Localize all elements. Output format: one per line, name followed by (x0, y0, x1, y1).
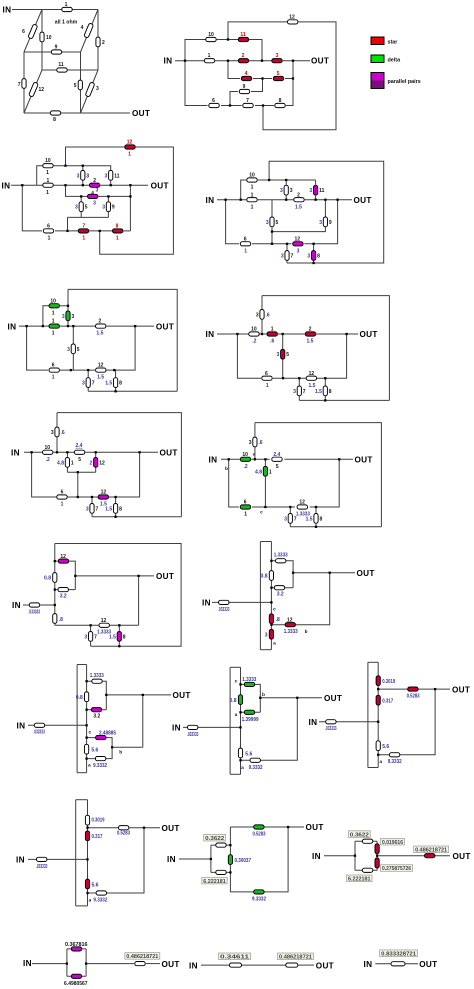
svg-text:3: 3 (51, 430, 54, 436)
wire 6.222181 branch (355, 869, 377, 871)
wire down to R4 (228, 61, 240, 79)
svg-text:2.4: 2.4 (273, 452, 280, 458)
wire R4-R5 (253, 78, 272, 80)
svg-text:12: 12 (98, 363, 104, 369)
resistor R2 (star, 1.5) (305, 332, 315, 336)
svg-text:6.222181: 6.222181 (348, 877, 371, 883)
resistor 9.3332 (250, 758, 260, 762)
svg-text:8: 8 (119, 381, 122, 387)
resistor R3 (delta, 3) (66, 311, 70, 321)
wire R10 to R5 (252, 458, 270, 460)
resistor 6.222181 (216, 870, 226, 874)
svg-text:OUT: OUT (132, 109, 150, 118)
wire R5 vertical (80, 196, 82, 217)
junction nodes c2 (184, 60, 186, 62)
resistor R5 (1 ohm) (78, 80, 82, 90)
resistor R6 (209, 103, 219, 107)
resistor 0.317 (star) (376, 695, 380, 705)
wire R7-R8 (255, 105, 274, 107)
wire bottom line (92, 516, 181, 518)
svg-text:1: 1 (244, 512, 247, 518)
svg-text:.6: .6 (270, 339, 274, 345)
resistor 0.3019 (85, 815, 89, 825)
svg-text:10: 10 (45, 158, 51, 164)
svg-text:12: 12 (60, 554, 66, 560)
svg-text:all 1 ohm: all 1 ohm (55, 20, 78, 26)
svg-text:3: 3 (86, 173, 89, 179)
wire R8 right (123, 230, 131, 232)
wire to OUT (146, 963, 160, 965)
svg-text:2: 2 (242, 53, 245, 59)
wire IN segment (179, 858, 211, 860)
svg-text:0.833328721: 0.833328721 (381, 951, 416, 957)
svg-text:0.275875726: 0.275875726 (382, 866, 411, 872)
svg-text:.033333: .033333 (29, 609, 41, 615)
junction nodes c4 (224, 199, 226, 201)
svg-text:11: 11 (114, 173, 120, 179)
wire R2-OUT (305, 199, 352, 201)
wire bottom line (290, 526, 381, 528)
svg-text:3: 3 (256, 312, 259, 318)
svg-text:3: 3 (309, 188, 312, 194)
svg-text:11: 11 (319, 188, 325, 194)
svg-text:3: 3 (319, 220, 322, 226)
wire R3 vertical (285, 180, 287, 200)
junction nodes c10 (270, 560, 272, 562)
wire OUT line (88, 827, 161, 829)
svg-text:1: 1 (208, 53, 211, 59)
wire bottom line and right vertical (230, 827, 288, 892)
wire top loop and right side (55, 544, 181, 647)
svg-text:.6: .6 (258, 440, 262, 446)
wire R6 line right and up (107, 326, 136, 370)
svg-text:2.48885: 2.48885 (99, 730, 116, 736)
resistor R12 (1.3333) (297, 505, 307, 509)
svg-text:OUT: OUT (452, 685, 470, 694)
resistor R1 (1 ohm) (62, 7, 72, 11)
wire left return edge (75, 800, 77, 906)
svg-text:6: 6 (47, 224, 50, 230)
svg-text:3: 3 (307, 254, 310, 260)
svg-text:OUT: OUT (354, 196, 372, 205)
wire IN segment (24, 451, 42, 453)
junction nodes c8 (228, 458, 230, 460)
resistor 5.6 (238, 748, 242, 758)
resistor 0.3622 (362, 839, 372, 843)
svg-text:IN: IN (312, 852, 321, 861)
wire R9 right leg (251, 79, 263, 92)
resistor R8 (275, 103, 285, 107)
svg-text:9.3332: 9.3332 (388, 759, 402, 765)
svg-text:3: 3 (93, 200, 96, 206)
wire R6-R7 (221, 105, 242, 107)
junction nodes c16 (354, 855, 356, 857)
svg-text:0.34611: 0.34611 (220, 955, 249, 961)
wire 1.39999 branch (241, 711, 261, 713)
resistor R2 (star) (238, 59, 248, 63)
wire R6-R12 (60, 369, 95, 371)
wire edge A-F1 (24, 10, 42, 53)
wire R6 line right and up (304, 200, 337, 244)
svg-text:5.6: 5.6 (245, 751, 252, 757)
svg-text:1: 1 (116, 236, 119, 242)
svg-text:1: 1 (52, 310, 55, 316)
resistor 3 (star) (269, 629, 273, 639)
wire R12 loop return (100, 147, 174, 254)
svg-text:c: c (273, 608, 276, 613)
wire 9.3332 branch (87, 747, 113, 758)
wire 2.48885 branch (87, 738, 113, 748)
resistor 9.3332 (389, 753, 399, 757)
svg-text:5.6: 5.6 (382, 744, 389, 750)
svg-text:2: 2 (99, 319, 102, 325)
resistor R1 (204, 59, 214, 63)
svg-text:a: a (235, 713, 238, 718)
svg-text:OUT: OUT (162, 960, 180, 969)
svg-text:.8: .8 (276, 617, 280, 623)
svg-text:12: 12 (309, 371, 315, 377)
junction nodes c11 (85, 680, 87, 682)
junction nodes c3 (21, 184, 23, 186)
wire R5 right (285, 78, 293, 80)
wire R7 vertical (90, 625, 92, 646)
resistor R11 (parallel pair, 3) (314, 185, 318, 195)
wire R12 branch (66, 147, 125, 166)
svg-text:1: 1 (52, 331, 55, 337)
wire IN line (319, 721, 378, 723)
svg-text:3: 3 (265, 633, 268, 639)
wire up to R10 (241, 180, 247, 200)
wire right loop vertical (142, 695, 144, 747)
svg-text:7: 7 (294, 516, 297, 522)
resistor R2 (1 ohm) (96, 37, 100, 47)
wire R12 branch left (228, 22, 287, 40)
legend star (red) (371, 37, 384, 45)
wire IN line (212, 601, 271, 603)
svg-text:5: 5 (74, 83, 77, 89)
svg-text:10: 10 (249, 173, 255, 179)
wire main to R6 line (27, 326, 48, 370)
resistor .033333 (188, 725, 198, 729)
wire OUT branch (378, 688, 450, 690)
svg-text:8: 8 (279, 98, 282, 104)
svg-text:b: b (305, 629, 308, 635)
wire R5 vertical (271, 200, 273, 244)
wire R3 vertical (254, 423, 256, 460)
svg-text:1: 1 (251, 192, 254, 198)
wire bottom left (185, 61, 208, 106)
wire main to R6 line (226, 200, 239, 244)
wire main to R6 line (237, 334, 261, 378)
resistor R3 (star) (272, 59, 282, 63)
wire OUT line (260, 697, 322, 699)
svg-text:0.486218721: 0.486218721 (279, 955, 312, 961)
boxed value 0.019616 (381, 838, 405, 845)
wire R7-R8 (89, 230, 113, 232)
svg-text:.2: .2 (252, 339, 256, 345)
wire R6 line right and up (317, 334, 347, 378)
resistor 1.3333 (276, 559, 286, 563)
svg-text:1: 1 (271, 327, 274, 333)
svg-text:IN: IN (8, 322, 17, 331)
svg-text:9.3332: 9.3332 (93, 897, 107, 903)
wire R1 vertical (264, 459, 266, 507)
wire 3.2 branch (55, 589, 76, 591)
wire up-branch left (185, 40, 206, 61)
resistor R11 (3) (109, 170, 113, 180)
wire right vertical (129, 185, 131, 231)
resistor 5.6 (star) (85, 879, 89, 889)
svg-text:9.3332: 9.3332 (252, 896, 266, 902)
svg-text:a: a (88, 764, 91, 769)
svg-text:3: 3 (266, 220, 269, 226)
svg-text:1.5: 1.5 (309, 383, 316, 389)
wire 0.3622 branch (211, 844, 231, 846)
svg-text:0.3019: 0.3019 (92, 817, 105, 823)
svg-text:.8: .8 (59, 617, 63, 623)
svg-text:3: 3 (77, 173, 80, 179)
svg-text:a: a (273, 642, 276, 647)
wire R5 vertical (72, 326, 74, 370)
svg-text:2: 2 (102, 40, 105, 46)
svg-text:8: 8 (329, 389, 332, 395)
svg-text:10: 10 (46, 35, 52, 41)
svg-text:8: 8 (320, 516, 323, 522)
wire IN-OUT (375, 963, 418, 965)
resistor R7 (1 ohm) (22, 79, 26, 89)
resistor .033333 (219, 600, 229, 604)
svg-text:1.5: 1.5 (109, 634, 116, 640)
resistor R6 (delta, 1) (240, 505, 250, 509)
resistor R1 (star, .6) (267, 332, 277, 336)
wire to OUT (288, 826, 304, 828)
svg-text:0.5283: 0.5283 (407, 694, 420, 700)
svg-text:1: 1 (266, 383, 269, 389)
wire R3 vertical (82, 166, 84, 186)
svg-text:3: 3 (62, 314, 65, 320)
svg-text:OUT: OUT (453, 852, 471, 861)
svg-text:c: c (235, 680, 238, 685)
wire edge F1-F2 (24, 51, 81, 53)
svg-text:IN: IN (206, 330, 215, 339)
wire 3.2 branch (271, 587, 293, 589)
svg-text:12: 12 (299, 500, 305, 506)
wire edge B-G2 (97, 10, 99, 71)
resistor R8 (pair, 1.5) (117, 632, 121, 642)
wire loop return (269, 161, 384, 263)
wire mid line to OUT (377, 855, 450, 857)
svg-text:OUT: OUT (306, 823, 324, 832)
svg-text:10: 10 (242, 452, 248, 458)
resistor R10 (1) (247, 178, 257, 182)
svg-text:7: 7 (291, 254, 294, 260)
wire bottom cap (76, 905, 88, 907)
resistor R7 (3) (90, 504, 94, 514)
wire left bracket (210, 845, 212, 872)
svg-text:4.8: 4.8 (57, 460, 64, 466)
resistor 0.5283 (star) (408, 687, 418, 691)
wire 1.3333 branch right leg (271, 561, 293, 588)
resistor R6 (1) (57, 495, 67, 499)
wire R11 to main (315, 180, 317, 200)
wire bottom cap (260, 649, 271, 651)
resistor 6.222181 (362, 868, 372, 872)
resistor 3.2 (274, 586, 284, 590)
svg-text:7: 7 (94, 634, 97, 640)
boxed value 0.486218721 (414, 846, 449, 853)
wire top cap (230, 666, 240, 668)
svg-text:1: 1 (269, 469, 272, 475)
svg-text:a: a (379, 760, 382, 765)
wire left bracket (66, 949, 68, 976)
svg-text:1.5: 1.5 (96, 331, 103, 337)
resistor R8 (1.5) (314, 514, 318, 524)
svg-text:8: 8 (53, 117, 56, 123)
wire down to R4 (66, 185, 88, 196)
wire edge B-F2 (81, 10, 99, 53)
svg-text:IN: IN (12, 601, 21, 610)
svg-text:3.2: 3.2 (277, 592, 284, 598)
wire R2-OUT (106, 325, 154, 327)
wire pair tap down (77, 472, 79, 497)
svg-text:.6: .6 (61, 430, 65, 436)
svg-text:0.486218721: 0.486218721 (126, 954, 158, 960)
boxed value 0.486218721 (278, 953, 314, 960)
wire R6-R7 (55, 230, 78, 232)
junction nodes c5 (25, 325, 27, 327)
resistor R2 (parallel pair, 3) (89, 183, 99, 187)
wire 6.222181 branch (211, 871, 231, 873)
resistor R12 (pair, 12) (94, 458, 98, 468)
svg-text:3: 3 (249, 440, 252, 446)
resistor 0.5283 (119, 826, 129, 830)
wire right vertical to OUT line (138, 576, 140, 625)
boxed value 0.3622 (204, 834, 226, 841)
resistor R7 (3) (86, 378, 90, 388)
wire IN to resistors (201, 964, 286, 966)
resistor R6 (1) (262, 376, 272, 380)
svg-text:3: 3 (293, 389, 296, 395)
resistor R1 (1) (43, 183, 53, 187)
svg-text:0.8: 0.8 (261, 574, 268, 580)
svg-text:IN: IN (209, 456, 218, 465)
svg-text:3: 3 (281, 254, 284, 260)
resistor 0.275875726 (star) (375, 858, 379, 868)
svg-text:5: 5 (77, 347, 80, 353)
wire R12 line and up (271, 573, 329, 625)
resistor .8 (53, 614, 57, 624)
resistor R12 (star, 1) (125, 145, 135, 149)
svg-text:.033333: .033333 (33, 730, 45, 736)
resistor R5 (3) (71, 344, 75, 354)
svg-text:0.3622: 0.3622 (350, 832, 369, 838)
wire R5 vertical (282, 334, 284, 378)
svg-text:12: 12 (295, 236, 301, 242)
resistor R4 (star) (241, 76, 251, 80)
svg-text:11: 11 (240, 32, 246, 38)
resistor R10 (1) (43, 164, 53, 168)
svg-text:2: 2 (309, 327, 312, 333)
wire bottom edge FB1-FB2 (24, 112, 81, 114)
wire IN segment (19, 325, 49, 327)
resistor R9 (1 ohm) (51, 50, 61, 54)
svg-text:12: 12 (287, 618, 293, 624)
wire 9.3332 branch and loop up (378, 689, 435, 755)
wire R8 vertical (118, 625, 120, 646)
resistor 0.8 (53, 573, 57, 583)
wire R12 branch (55, 561, 76, 590)
svg-text:3: 3 (96, 86, 99, 92)
svg-text:OUT: OUT (160, 449, 178, 458)
resistor .8 (star) (269, 614, 273, 624)
svg-text:1: 1 (71, 460, 74, 466)
resistor 3.2 (pair) (91, 708, 101, 712)
wire bottom line (88, 390, 177, 392)
svg-text:7: 7 (96, 506, 99, 512)
legend parallel pairs (magenta/purple) (371, 73, 384, 81)
wire R10 right (60, 305, 69, 307)
resistor R3 (1 ohm) (85, 82, 95, 97)
svg-text:2: 2 (297, 192, 300, 198)
svg-text:0.3019: 0.3019 (382, 679, 395, 685)
wire left return edge (259, 542, 261, 650)
resistor 1.3333 (delta) (244, 682, 254, 686)
wire R8 vertical (313, 244, 315, 263)
resistor R12 (1.5) (306, 376, 316, 380)
resistor R5 (2.4) (74, 450, 84, 454)
resistor 1.3333 (92, 679, 102, 683)
svg-text:OUT: OUT (419, 960, 437, 969)
svg-text:7: 7 (18, 82, 21, 88)
resistor 9.3332 (95, 757, 105, 761)
resistor R1 (4.8) (65, 458, 69, 468)
resistor R12 (1 ohm) (29, 82, 39, 97)
resistor 0.3622 (216, 843, 226, 847)
resistor R3 (3) (81, 170, 85, 180)
resistor R7 (3) (297, 386, 301, 396)
resistor R12 (288, 20, 298, 24)
svg-text:0.30037: 0.30037 (235, 858, 252, 864)
svg-text:6: 6 (244, 500, 247, 506)
svg-text:OUT: OUT (360, 330, 378, 339)
wire top loop (262, 296, 389, 401)
resistor R12 (1.5) (96, 368, 106, 372)
svg-text:3.2: 3.2 (60, 594, 67, 600)
wire right bracket (85, 949, 87, 976)
wire R2-R3 (249, 60, 272, 62)
svg-text:7: 7 (303, 389, 306, 395)
resistor R3 (.6) (253, 437, 257, 447)
wire R7 vertical (298, 378, 300, 400)
wire R2-OUT (100, 184, 148, 186)
svg-text:8: 8 (116, 224, 119, 230)
svg-text:1: 1 (82, 236, 85, 242)
resistor R9 (239, 89, 249, 93)
svg-text:IN: IN (309, 718, 318, 727)
svg-text:9: 9 (243, 84, 246, 90)
svg-text:.6: .6 (266, 312, 270, 318)
wire left return edge (76, 665, 78, 773)
wire bottom cap (368, 767, 378, 769)
junction nodes c9 (54, 560, 56, 562)
wire R3 vertical (67, 289, 69, 326)
svg-text:0.317: 0.317 (92, 834, 103, 840)
wire R11 down to main (249, 40, 262, 61)
resistor R4 (1 ohm) (84, 23, 94, 38)
svg-text:IN: IN (189, 961, 198, 970)
svg-text:7: 7 (246, 98, 249, 104)
svg-text:IN: IN (364, 960, 373, 969)
